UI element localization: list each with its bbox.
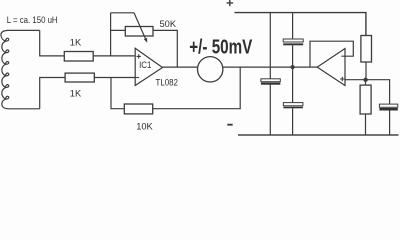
svg-text:IC1: IC1 [139, 59, 152, 70]
svg-text:L = ca. 150 uH: L = ca. 150 uH [7, 14, 58, 25]
svg-text:1K: 1K [70, 88, 82, 98]
svg-text:10K: 10K [136, 121, 153, 131]
svg-text:TL082: TL082 [156, 77, 179, 88]
svg-text:1K: 1K [70, 37, 82, 47]
svg-text:+/- 50mV: +/- 50mV [189, 35, 252, 58]
svg-text:50K: 50K [160, 19, 177, 29]
